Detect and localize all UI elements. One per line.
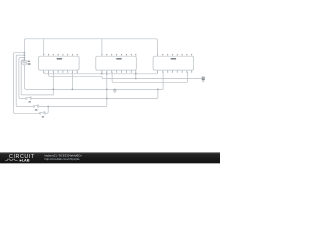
svg-text:kadams21 / BCE3324ak4pBCe: kadams21 / BCE3324ak4pBCe [45,153,83,157]
svg-text:▸LAB: ▸LAB [19,159,30,163]
svg-text:http://circuitlab.com/c/9p1p3e: http://circuitlab.com/c/9p1p3e [45,157,80,161]
